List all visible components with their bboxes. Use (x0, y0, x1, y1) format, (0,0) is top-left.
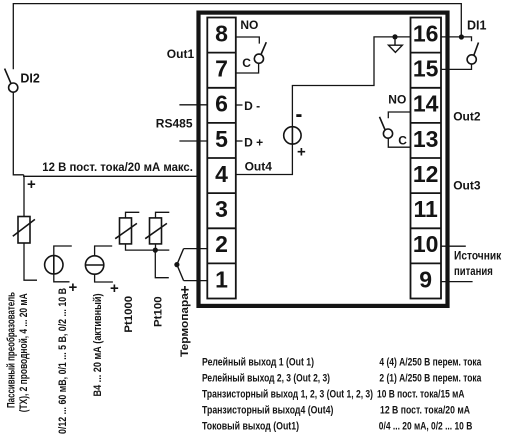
svg-text:7: 7 (215, 56, 228, 82)
svg-text:Pt1000: Pt1000 (123, 296, 135, 333)
terminal strip right (411, 18, 442, 299)
wire D- stub (236, 104, 243, 106)
svg-text:14: 14 (413, 91, 439, 117)
svg-text:1: 1 (215, 266, 228, 292)
wire Pt1000 lower lead (126, 244, 156, 250)
svg-text:15: 15 (413, 56, 439, 82)
svg-text:Источник: Источник (454, 249, 502, 263)
svg-text:+: + (297, 144, 306, 161)
label minus Out4 (296, 114, 301, 117)
wire mA source lower lead (95, 274, 113, 282)
svg-text:Транзисторный выход4 (Out4): Транзисторный выход4 (Out4) (202, 405, 334, 417)
wire terminal 13 to C contact (388, 138, 410, 147)
wire Pt1000 upper lead (126, 212, 140, 218)
svg-text:8: 8 (215, 21, 228, 47)
wire transducer lower lead (24, 243, 37, 280)
svg-text:11: 11 (414, 196, 439, 222)
switch DI2 (5, 69, 18, 93)
svg-text:RS485: RS485 (156, 117, 193, 131)
switch DI1 (467, 43, 478, 65)
svg-text:Out3: Out3 (453, 179, 481, 193)
svg-text:4: 4 (215, 161, 228, 187)
wire current source to ground node (292, 37, 410, 127)
svg-text:Pt100: Pt100 (153, 296, 165, 327)
wire Pt100 upper lead (156, 212, 170, 218)
wire terminal 4 to current source (236, 144, 292, 174)
thermocouple (177, 249, 184, 281)
wire top link DI2 to DI1 (13, 4, 461, 70)
wire mV source lower lead (54, 274, 70, 282)
node thermocouple junction (174, 262, 179, 267)
svg-text:+: + (110, 280, 119, 297)
node junction RTD (153, 248, 158, 253)
svg-text:6: 6 (215, 91, 228, 117)
svg-text:3: 3 (215, 196, 228, 222)
current source Out4 (284, 127, 301, 144)
wire rail to transducer (23, 176, 25, 216)
svg-text:Релейный выход 1 (Out 1): Релейный выход 1 (Out 1) (202, 357, 314, 369)
svg-text:16: 16 (413, 21, 439, 47)
svg-text:C: C (242, 56, 251, 70)
wire RS485 terminal 6 (179, 104, 207, 106)
svg-text:(ТХ), 2 проводной, 4 ... 20 мА: (ТХ), 2 проводной, 4 ... 20 мА (18, 293, 30, 412)
wire RTD stub terminal 1 (155, 250, 169, 278)
svg-text:12 В пост. тока/20 мА макс.: 12 В пост. тока/20 мА макс. (42, 160, 193, 174)
svg-text:NO: NO (240, 18, 258, 32)
svg-text:Релейный выход 2, 3 (Out 2, 3): Релейный выход 2, 3 (Out 2, 3) (202, 373, 330, 385)
terminal strip left (207, 18, 236, 299)
ground (389, 40, 403, 53)
svg-text:10: 10 (413, 231, 439, 257)
svg-text:0/12 ... 60 мВ, 0/1 ... 5 В, 0: 0/12 ... 60 мВ, 0/1 ... 5 В, 0/2 ... 10 … (57, 288, 69, 434)
svg-text:Out4: Out4 (245, 160, 273, 174)
wire D+ stub (236, 140, 243, 142)
main box (199, 13, 448, 306)
svg-text:9: 9 (419, 266, 432, 292)
svg-text:2 (1) А/250 В перем. тока: 2 (1) А/250 В перем. тока (379, 373, 482, 385)
svg-text:Out1: Out1 (167, 47, 195, 61)
svg-text:C: C (398, 133, 407, 147)
svg-text:13: 13 (413, 126, 439, 152)
svg-text:2: 2 (215, 231, 228, 257)
wire 12V rail to terminal 4 (24, 175, 208, 177)
svg-text:12 В пост. тока/20 мА: 12 В пост. тока/20 мА (380, 405, 470, 417)
svg-text:12: 12 (413, 161, 439, 187)
wire DI1 to terminal 15 (441, 64, 472, 69)
node ground junction (392, 34, 397, 39)
wire terminal 7 to C contact (236, 64, 259, 73)
wire DI2 to 12V rail (13, 92, 23, 175)
wire thermocouple terminal 2 (184, 248, 208, 250)
svg-text:D +: D + (244, 135, 263, 149)
svg-text:Пассивный преобразователь: Пассивный преобразователь (6, 292, 18, 408)
relay contact Out1 (254, 42, 266, 63)
wire terminal 8 to NO contact (236, 37, 259, 44)
wire mA source upper lead (95, 246, 113, 256)
wire terminal 14 to NO contact (388, 112, 410, 118)
svg-text:DI1: DI1 (467, 19, 487, 33)
wire Pt100 lower lead (155, 244, 157, 250)
svg-text:+: + (69, 279, 78, 296)
wire terminal 16 to DI1 (441, 37, 472, 41)
svg-text:Токовый выход (Out1): Токовый выход (Out1) (202, 421, 299, 433)
current source mA active (85, 256, 103, 274)
svg-text:10 В пост. тока/15 мА: 10 В пост. тока/15 мА (377, 389, 465, 401)
svg-text:D -: D - (244, 99, 260, 113)
svg-text:5: 5 (215, 126, 228, 152)
wire RTD stub terminal 2 (155, 249, 169, 251)
svg-text:Out2: Out2 (453, 110, 481, 124)
svg-text:+: + (27, 176, 36, 193)
relay contact Out2 (380, 117, 393, 138)
resistor Pt100 (145, 218, 167, 244)
wire thermocouple terminal 1 (184, 280, 208, 282)
resistor Pt1000 (115, 218, 137, 244)
resistor transducer TX (13, 217, 35, 244)
wire RS485 terminal 5 (179, 140, 207, 142)
svg-text:0/4 ... 20 мА, 0/2 ... 10 В: 0/4 ... 20 мА, 0/2 ... 10 В (379, 421, 473, 433)
svg-text:NO: NO (388, 93, 406, 107)
node junction DI1 (459, 34, 464, 39)
svg-text:питания: питания (454, 264, 493, 278)
svg-text:В4 ... 20 мА (активный): В4 ... 20 мА (активный) (92, 293, 104, 396)
svg-text:4 (4) А/250 В перем. тока: 4 (4) А/250 В перем. тока (379, 357, 482, 369)
svg-text:DI2: DI2 (20, 72, 40, 86)
voltage source mV/V (45, 256, 63, 274)
svg-text:Транзисторный выход 1, 2, 3 (O: Транзисторный выход 1, 2, 3 (Out 1, 2, 3… (202, 389, 373, 401)
wire mV source upper lead (54, 246, 72, 256)
svg-text:Термопара: Термопара (179, 292, 191, 357)
wire terminal 9 power (441, 281, 473, 283)
wire terminal 10 power (441, 245, 466, 247)
